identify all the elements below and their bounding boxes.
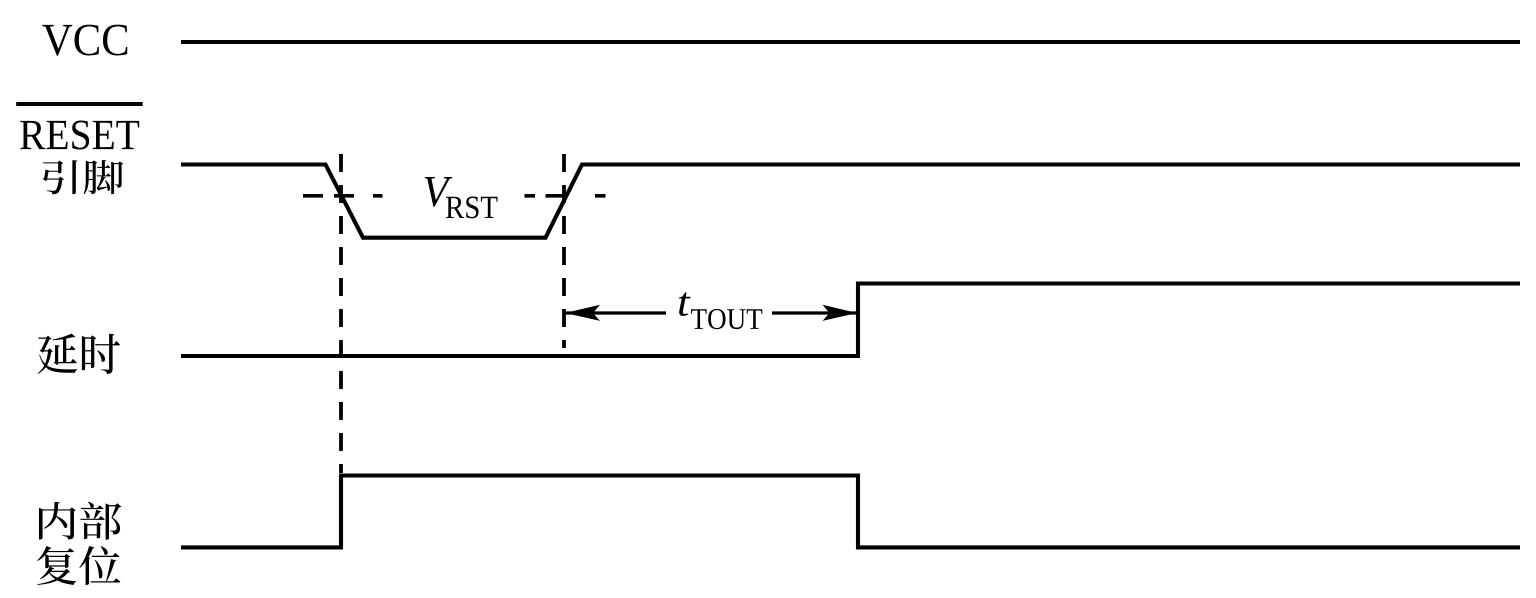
label RESET overline: [16, 102, 143, 106]
label RESET: [20, 121, 139, 150]
wire RESET pin waveform: [181, 165, 1520, 238]
label tTOUT left arrowhead: [565, 305, 600, 321]
label tTOUT dimension arrow right segment: [772, 311, 857, 314]
label VCC: [42, 25, 127, 56]
node VRST threshold dashed level right: [525, 194, 606, 198]
label tTOUT right arrowhead: [823, 305, 858, 321]
label fuwei (reset): [37, 546, 120, 585]
label neibu (internal): [39, 502, 121, 540]
label yinjiao (pin): [42, 160, 123, 194]
label tTOUT dimension arrow left segment: [565, 311, 666, 314]
wire internal reset pulse waveform: [181, 476, 1520, 548]
label tTOUT symbol t: [679, 293, 690, 316]
wire dashed marker line t2: [562, 154, 566, 348]
wire dashed marker line t1: [339, 154, 343, 473]
label yanshi (delay): [38, 333, 120, 373]
node VRST threshold dashed level left: [303, 194, 383, 198]
label tTOUT subscript TOUT: [691, 309, 762, 329]
wire VCC supply line: [181, 40, 1520, 44]
label VRST subscript RST: [446, 196, 498, 218]
wire delay output waveform: [181, 284, 1520, 357]
label VRST symbol V: [425, 177, 453, 207]
